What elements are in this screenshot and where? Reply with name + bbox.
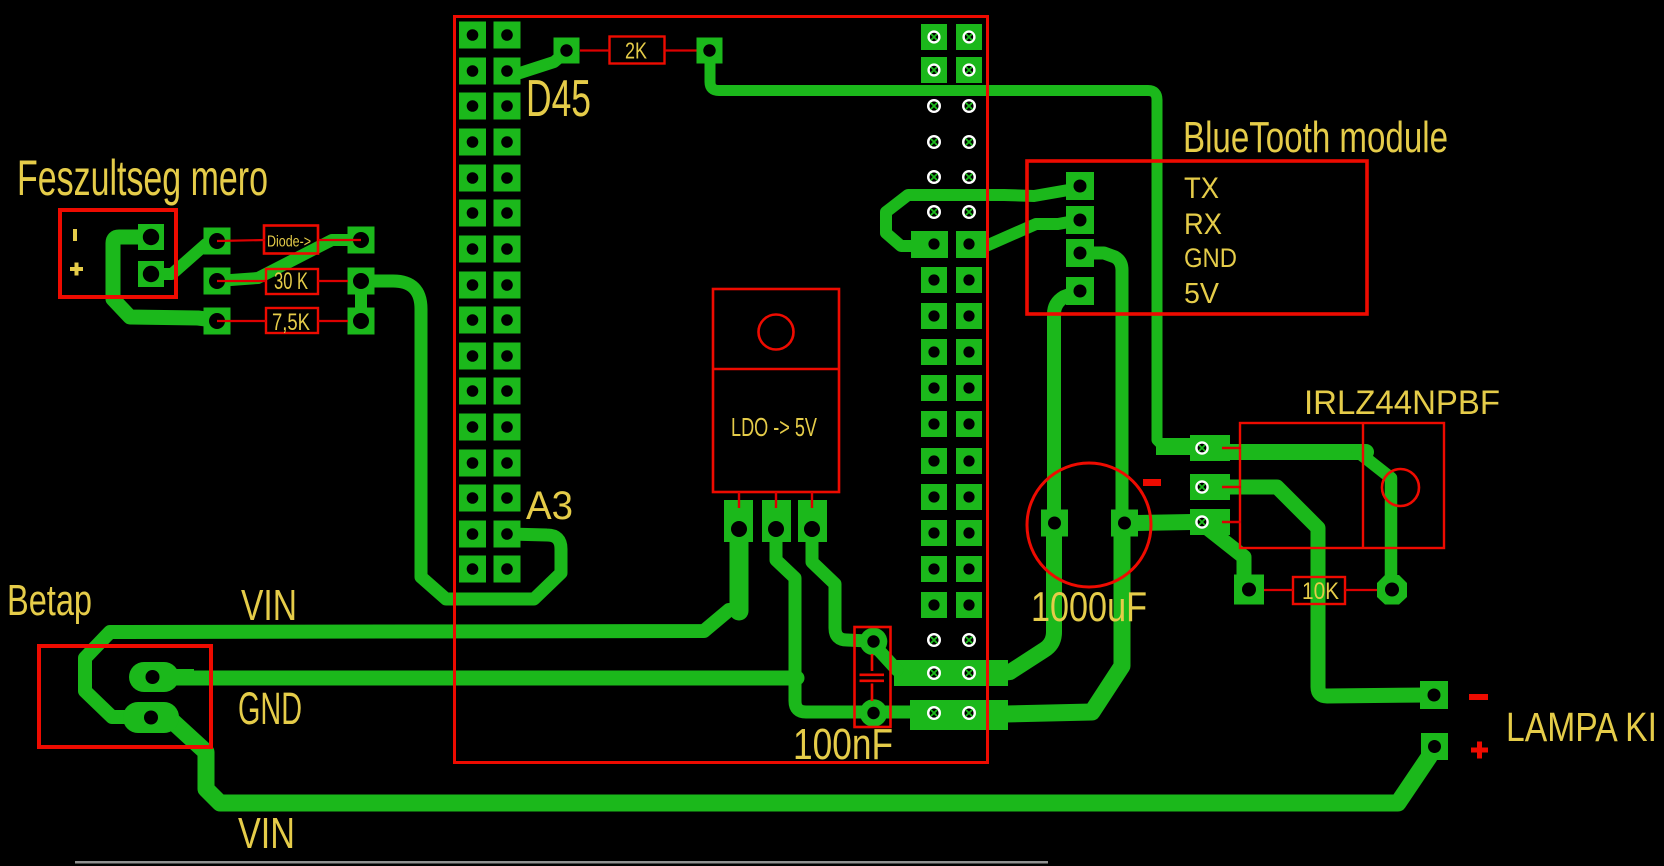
wire 1000uF left pad down to GND bar <box>1000 523 1054 673</box>
svg-text:1000uF: 1000uF <box>1031 583 1147 630</box>
regulator U1 LDO TO-220 outline <box>713 289 839 492</box>
svg-text:IRLZ44NPBF: IRLZ44NPBF <box>1304 384 1500 422</box>
module U2 BlueTooth pads TX RX GND 5V <box>1066 172 1094 200</box>
wire GND from Betap top pad to LDO pad2 tee <box>152 671 797 686</box>
svg-text:Betap: Betap <box>7 576 92 625</box>
transistor Q1 IRLZ44NPBF pads gate drain source <box>1156 438 1194 455</box>
capacitor C1 1000uF outline and minus mark <box>1027 463 1151 587</box>
wire bar at 100nF bottom pad row <box>910 700 1008 730</box>
svg-text:100nF: 100nF <box>793 720 893 769</box>
transistor Q1 pin lines <box>1222 448 1241 522</box>
wire BlueTooth GND pad down to 1000uF right pad <box>1080 253 1122 520</box>
wire Diode right pad to 30K left pad (diagonal) <box>217 240 361 281</box>
label plus in Feszultseg box <box>70 267 83 271</box>
transistor Q1 IRLZ44NPBF outline <box>1240 423 1444 548</box>
resistor R1 2K body and leads <box>610 37 665 64</box>
svg-text:BlueTooth module: BlueTooth module <box>1183 113 1448 162</box>
svg-text:2K: 2K <box>625 38 648 64</box>
wire Feszultseg pad2 to Diode left pad (diagonal) <box>151 241 217 274</box>
board outline <box>455 17 988 763</box>
wire 1000uF right pad stub to MOSFET source pad <box>1135 522 1192 523</box>
wire 1000uF right pad down to 100nF bottom net bar <box>1005 523 1122 714</box>
wire LDO pad2 down to 100nF bottom pad <box>776 538 915 712</box>
wire link 30K right pad to 7,5K right pad <box>355 281 367 321</box>
svg-text:RX: RX <box>1184 208 1222 241</box>
wire BlueTooth 5V pad down to 1000uF left pad <box>1054 291 1080 520</box>
wire 2K left pad diagonal to header D45 pad <box>508 52 566 73</box>
resistor R2 10K pads <box>1234 575 1264 605</box>
svg-text:30 K: 30 K <box>274 268 308 295</box>
wire bottom VIN from Betap bottom pad to LAMPA KI + pad <box>170 719 1429 803</box>
resistor R2 10K body and leads <box>1293 577 1345 604</box>
Betap connector outline <box>39 646 211 747</box>
svg-text:GND: GND <box>1184 243 1237 273</box>
resistor R-7,5K pads <box>204 308 231 335</box>
regulator U1 LDO pads <box>724 500 753 542</box>
connector LAMPA KI pads <box>1420 681 1448 709</box>
wire 30K right pad down and around to header A3 pad <box>361 281 561 599</box>
wire Feszultseg pad1 to 7,5K left pad (C shape) <box>113 237 214 320</box>
resistor 30K body and leads <box>266 269 318 294</box>
svg-text:Diode->: Diode-> <box>267 234 311 251</box>
svg-text:10K: 10K <box>1302 578 1339 605</box>
BlueTooth module outline <box>1027 161 1367 314</box>
svg-text:TX: TX <box>1184 172 1219 205</box>
capacitor C1 1000uF pads <box>1041 510 1068 537</box>
svg-text:5V: 5V <box>1184 278 1220 310</box>
svg-text:7,5K: 7,5K <box>272 309 310 336</box>
wire LDO pad3 down to 100nF top pad <box>812 538 868 641</box>
label minus in Feszultseg box <box>73 229 77 241</box>
wire BlueTooth RX pad diagonal to header pad <box>969 220 1080 246</box>
resistor R1 2K pads <box>554 38 580 64</box>
capacitor C2 100nF pads <box>860 628 888 656</box>
wire GND bar right of 100nF top pad <box>894 660 1008 686</box>
svg-text:A3: A3 <box>526 484 573 528</box>
connector J1 left header D45/A3 two columns 16 rows <box>459 22 521 583</box>
wire MOSFET drain pad down to LAMPA KI - pad <box>1204 487 1428 696</box>
diode D1 body and leads <box>264 226 318 254</box>
svg-text:VIN: VIN <box>241 581 297 630</box>
svg-text:LAMPA KI: LAMPA KI <box>1506 704 1657 750</box>
wire LDO pad1 input vertical <box>730 528 749 611</box>
wire MOSFET source pad to 10K left pad <box>1206 527 1244 586</box>
svg-text:GND: GND <box>238 683 302 734</box>
wire BlueTooth TX pad to header pad (loop) <box>886 188 1080 246</box>
wire diagonal 100nF top pad to GND bar <box>875 646 897 670</box>
Feszultseg mero connector outline <box>60 210 176 297</box>
resistor 7,5K body and leads <box>266 308 318 333</box>
resistor R-30K pads <box>204 268 231 295</box>
wire MOSFET gate pad to 10K right pad <box>1204 444 1366 460</box>
connector J2 right header two columns mixed pads <box>911 24 986 719</box>
LAMPA KI plus mark <box>1471 748 1488 753</box>
capacitor C2 100nF outline and symbol <box>855 627 891 727</box>
svg-text:VIN: VIN <box>238 809 295 858</box>
connector Betap pads <box>129 662 179 692</box>
svg-text:LDO -> 5V: LDO -> 5V <box>731 412 817 442</box>
wire 2K right pad along top to MOSFET gate pad <box>710 50 1195 447</box>
svg-text:D45: D45 <box>526 70 591 128</box>
connector X1 Feszultseg mero pads <box>138 224 164 250</box>
svg-text:Feszultseg mero: Feszultseg mero <box>17 150 268 206</box>
LAMPA KI minus mark <box>1469 694 1488 700</box>
diode D1 pads <box>204 228 231 255</box>
wire VIN from Betap bottom pad up-left then right to LDO pad1 <box>85 610 729 717</box>
bottom gray scrollbar line <box>75 861 1048 864</box>
